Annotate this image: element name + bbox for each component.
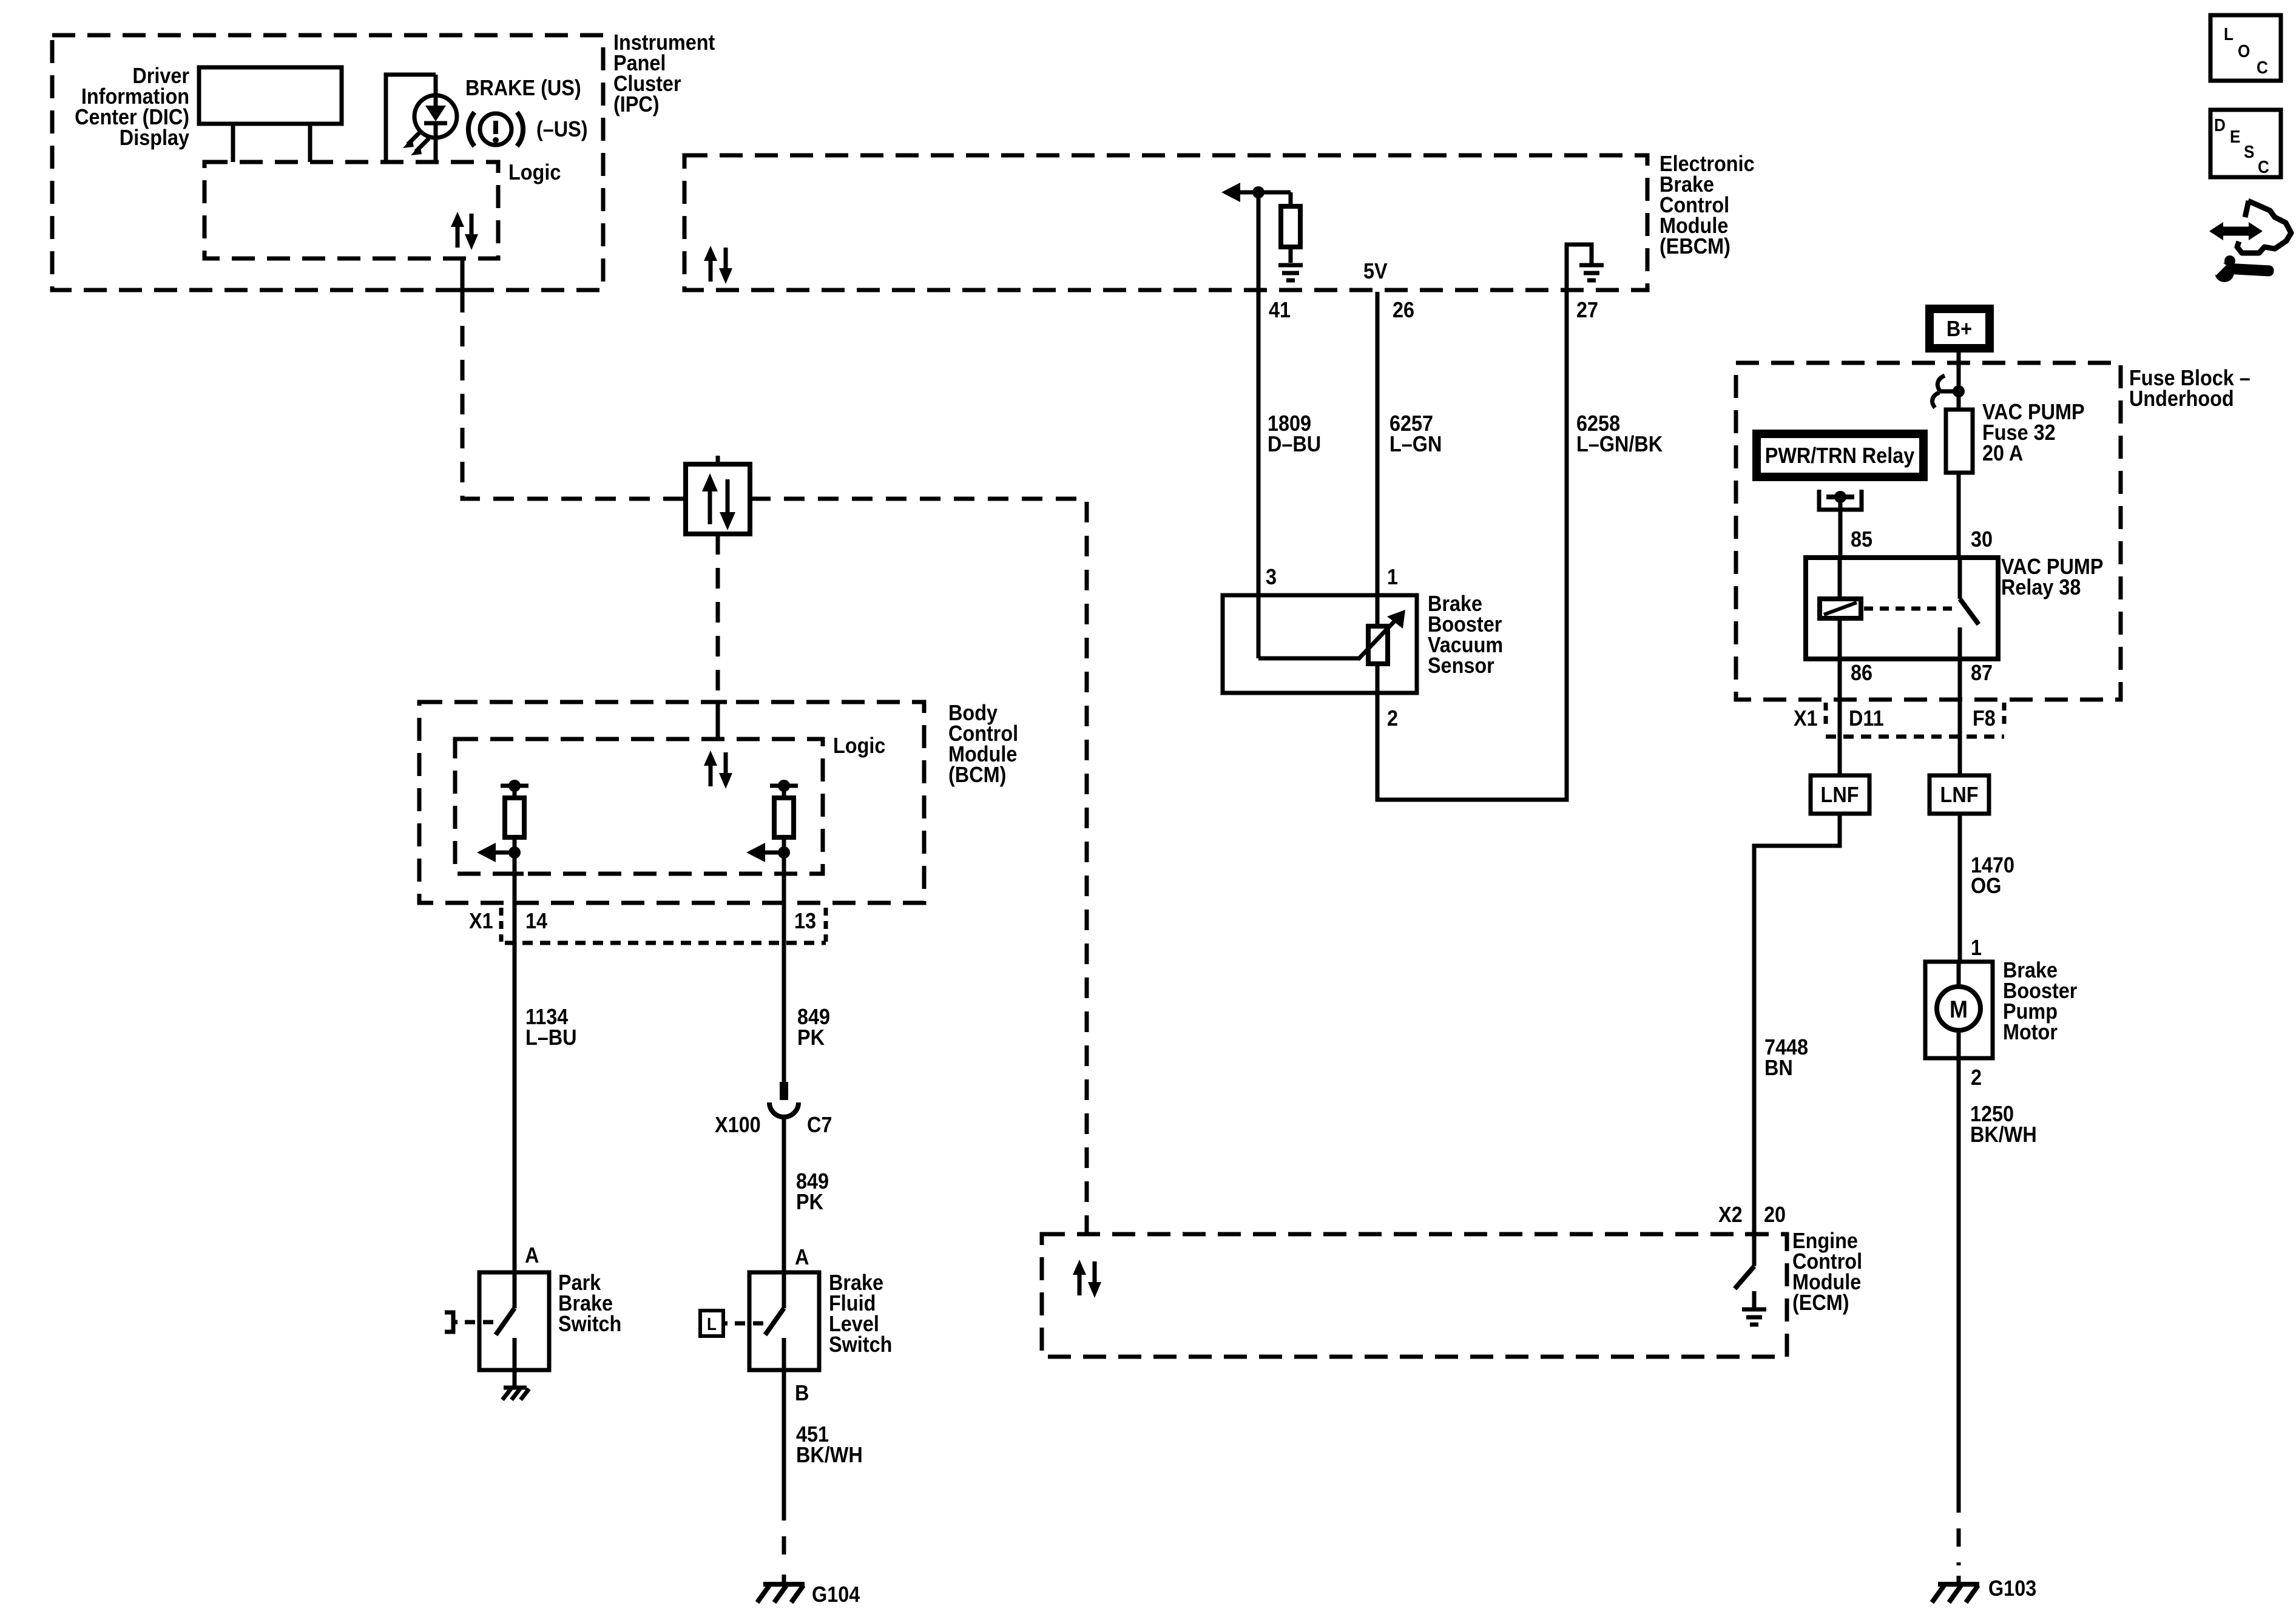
wire: serial data splice to EBCM stub (dashed) (716, 456, 720, 464)
svg-text:85: 85 (1851, 527, 1872, 552)
service/diagnostic icon (hand with arrow and wrench) (2207, 201, 2291, 282)
PWR/TRN relay terminal bracket (1819, 490, 1862, 510)
wire: PWR/TRN relay to pin 85 (1838, 502, 1843, 558)
tick at IPC boundary (453, 288, 471, 292)
svg-text:30: 30 (1971, 527, 1993, 552)
wire 849 PK (lower) (782, 1118, 786, 1272)
svg-text:3: 3 (1266, 565, 1277, 589)
wire 1809 D-BU (1257, 192, 1261, 658)
tick at ECM boundary (pin 20) (1745, 1232, 1763, 1237)
svg-text:B: B (795, 1381, 809, 1405)
svg-text:D11: D11 (1849, 706, 1884, 731)
BCM pull-up resistor (pin 13) (770, 780, 798, 852)
brake fluid level switch contacts (765, 1272, 784, 1370)
svg-text:C: C (2257, 58, 2268, 78)
ticks at logic boundary (505, 872, 524, 876)
svg-text:1: 1 (1387, 565, 1398, 589)
module box: Body Control Module (BCM) (419, 701, 1018, 903)
logic dashed box (IPC) (204, 162, 498, 258)
svg-text:G104: G104 (812, 1582, 860, 1607)
svg-text:Relay 38: Relay 38 (2001, 575, 2081, 599)
svg-text:X100: X100 (715, 1113, 761, 1137)
DIC display symbol (199, 67, 342, 162)
svg-text:E: E (2230, 127, 2240, 147)
svg-text:Motor: Motor (2003, 1020, 2058, 1044)
svg-text:X2: X2 (1718, 1203, 1743, 1227)
svg-text:C7: C7 (807, 1113, 832, 1137)
svg-text:BN: BN (1764, 1056, 1793, 1080)
module box: Engine Control Module (ECM) (1042, 1229, 1862, 1357)
wire: relay pin 87 to LNF (1958, 659, 1962, 775)
svg-text:5V: 5V (1363, 259, 1388, 283)
svg-text:OG: OG (1971, 874, 2001, 898)
wire: serial data splice to BCM (dashed) (716, 534, 720, 702)
serial data arrows (BCM) (704, 751, 732, 789)
svg-text:1: 1 (1971, 936, 1982, 960)
PWR/TRN Relay box (1757, 434, 1923, 477)
ECM internal switch (1735, 1234, 1754, 1289)
wire to G103 (dashed) (1957, 1494, 1961, 1565)
svg-text:Switch: Switch (558, 1312, 621, 1336)
wire 451 BK/WH (782, 1370, 786, 1502)
B+ power symbol (1930, 309, 1990, 348)
LNF option box (right) (1930, 775, 1989, 814)
brake warning symbol ((!)) (468, 112, 523, 146)
LOC reference box (2210, 15, 2281, 81)
svg-text:L–GN/BK: L–GN/BK (1576, 432, 1663, 456)
svg-text:87: 87 (1971, 661, 1993, 685)
Brake Fluid Level Switch (749, 1271, 892, 1370)
wire 849 PK (upper) (782, 852, 786, 1082)
sensor wiper arm (1258, 610, 1405, 660)
tick at fuse block boundary (1950, 361, 1968, 365)
wire: IPC logic output (461, 258, 465, 292)
ground (EBCM internal, pin 27 side) (1567, 245, 1604, 292)
ground (park brake switch) (502, 1370, 529, 1400)
LNF option box (left) (1811, 775, 1869, 814)
svg-text:L: L (2224, 24, 2234, 44)
svg-text:X1: X1 (469, 909, 493, 933)
Park Brake Switch (479, 1271, 621, 1370)
connector X1 (BCM) (469, 908, 826, 943)
svg-text:PK: PK (796, 1190, 823, 1214)
wire: serial data into BCM logic (716, 702, 720, 739)
wire 1250 BK/WH (1957, 1058, 1961, 1494)
svg-text:(IPC): (IPC) (613, 92, 660, 116)
serial data splice box (686, 464, 750, 534)
svg-text:D: D (2214, 115, 2226, 135)
svg-text:(–US): (–US) (536, 117, 588, 141)
svg-text:LNF: LNF (1940, 783, 1979, 807)
splice with fuse clip (1933, 376, 1965, 408)
BCM signal arrow (pin 14) (477, 843, 521, 862)
park brake switch contacts (496, 1272, 515, 1370)
svg-text:20 A: 20 A (1982, 441, 2023, 465)
svg-text:F8: F8 (1973, 706, 1996, 731)
wire 6258 L-GN/BK (1377, 292, 1567, 800)
LED indicator (brake warning lamp) (386, 75, 457, 162)
svg-text:LNF: LNF (1821, 783, 1859, 807)
svg-text:L–GN: L–GN (1389, 432, 1442, 456)
svg-text:A: A (795, 1245, 809, 1269)
svg-text:2: 2 (1387, 706, 1398, 731)
ground (ECM internal) (1742, 1291, 1766, 1325)
svg-text:S: S (2244, 142, 2254, 162)
svg-text:L: L (707, 1314, 717, 1334)
svg-text:13: 13 (794, 909, 816, 933)
svg-text:Underhood: Underhood (2129, 387, 2234, 411)
EBCM internal signal arrow (pin 41) (1221, 183, 1291, 202)
BCM pull-up resistor (pin 14) (501, 780, 528, 852)
svg-text:X1: X1 (1794, 706, 1818, 731)
svg-text:O: O (2238, 41, 2250, 61)
wire 7448 BN (1754, 814, 1840, 1234)
svg-text:27: 27 (1576, 298, 1598, 322)
ground G104 (757, 1575, 860, 1607)
svg-text:(EBCM): (EBCM) (1660, 234, 1730, 258)
serial data arrows (IPC logic) (451, 212, 478, 250)
wire: serial data splice to ECM (dashed) (750, 499, 1087, 1234)
Brake Booster Vacuum Sensor (1223, 592, 1503, 693)
svg-text:BK/WH: BK/WH (1970, 1122, 2037, 1147)
variable resistor element (1368, 626, 1388, 664)
serial data arrows (ECM) (1073, 1260, 1101, 1298)
wire: fuse to relay pin 30 (1957, 473, 1961, 558)
sensor internal wire (1376, 595, 1380, 626)
wire 1134 L-BU (513, 852, 517, 1272)
svg-text:BK/WH: BK/WH (796, 1443, 863, 1467)
svg-text:C: C (2258, 157, 2269, 177)
svg-text:B+: B+ (1947, 317, 1972, 341)
svg-text:26: 26 (1393, 298, 1414, 322)
svg-text:L–BU: L–BU (525, 1025, 577, 1050)
relay coil (1820, 558, 1861, 659)
svg-text:2: 2 (1971, 1065, 1982, 1090)
resistor (EBCM pull-up) (1281, 192, 1300, 263)
svg-text:41: 41 (1269, 298, 1291, 322)
wire 6257 L-GN (1376, 292, 1380, 627)
svg-text:D–BU: D–BU (1268, 432, 1321, 456)
wire: serial data IPC to splice (dashed) (462, 292, 686, 499)
svg-text:(BCM): (BCM) (948, 763, 1006, 787)
Brake Booster Pump Motor (1925, 958, 2077, 1058)
svg-text:A: A (525, 1243, 539, 1268)
svg-text:Logic: Logic (833, 734, 885, 758)
BCM signal arrow (pin 13) (746, 843, 790, 862)
logic dashed box (BCM) (455, 739, 823, 874)
connector X100 C7 (715, 1082, 832, 1137)
relay actuation dashed link (1864, 607, 1955, 611)
ground (EBCM internal, pin 41 side) (1278, 265, 1303, 280)
fuse: VAC PUMP Fuse 32 20 A (1946, 400, 2085, 473)
wire: relay pin 86 to LNF (1838, 659, 1842, 775)
DESC reference box (2210, 110, 2281, 177)
serial data arrows (EBCM) (704, 246, 732, 284)
svg-text:Sensor: Sensor (1428, 653, 1494, 678)
svg-text:BRAKE (US): BRAKE (US) (465, 76, 581, 100)
module box: Instrument Panel Cluster (IPC) (52, 30, 715, 290)
float symbol L (700, 1311, 763, 1336)
svg-text:M: M (1950, 996, 1968, 1023)
svg-text:PK: PK (797, 1025, 825, 1050)
wire to G104 (dashed) (782, 1502, 786, 1564)
wire: B+ feed (1957, 353, 1961, 410)
relay switch contact (1960, 558, 1979, 659)
svg-text:Switch: Switch (829, 1332, 892, 1357)
wire 1470 OG (1958, 814, 1962, 962)
svg-text:86: 86 (1851, 661, 1872, 685)
svg-text:(ECM): (ECM) (1792, 1291, 1849, 1315)
module box: Electronic Brake Control Module (EBCM) (684, 152, 1755, 290)
Driver Information Center (DIC) Display label (75, 64, 189, 150)
svg-text:PWR/TRN Relay: PWR/TRN Relay (1765, 444, 1915, 468)
tick at BCM boundary (709, 700, 727, 704)
svg-text:Logic: Logic (508, 160, 561, 184)
svg-text:14: 14 (525, 909, 547, 933)
tick at ECM boundary (serial data) (1078, 1232, 1096, 1237)
svg-text:G103: G103 (1988, 1576, 2036, 1601)
ground G103 (1932, 1576, 2036, 1602)
svg-text:20: 20 (1764, 1203, 1786, 1227)
connector X1 (fuse block) (1794, 703, 2004, 737)
park brake switch plunger (445, 1312, 493, 1332)
module box: Fuse Block - Underhood (1736, 363, 2250, 700)
relay: VAC PUMP Relay 38 (1806, 555, 2104, 659)
svg-text:Display: Display (120, 126, 189, 150)
